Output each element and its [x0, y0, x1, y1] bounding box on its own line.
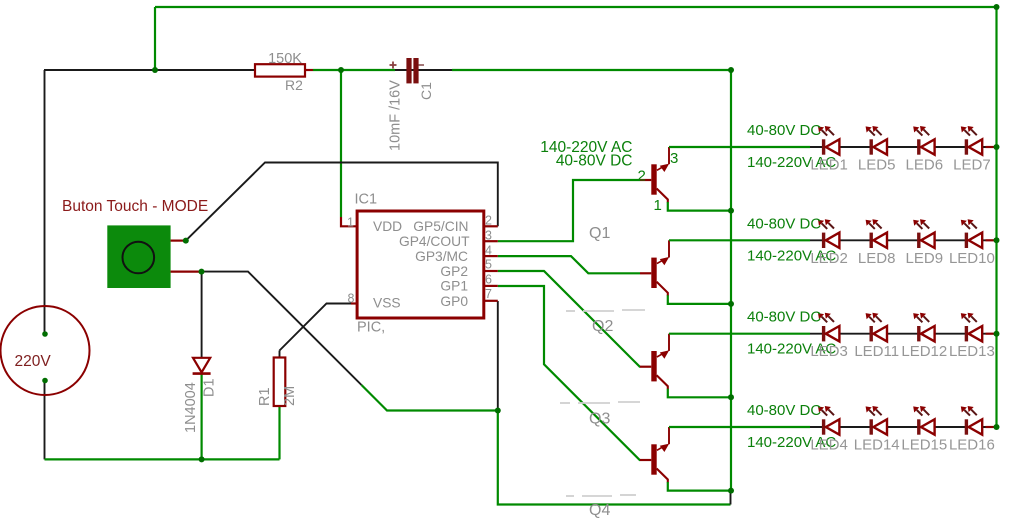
svg-text:LED9: LED9	[906, 250, 944, 267]
svg-text:220V: 220V	[15, 353, 52, 370]
svg-text:6: 6	[485, 273, 492, 287]
svg-text:LED16: LED16	[949, 437, 995, 454]
svg-text:40-80V DC: 40-80V DC	[556, 153, 633, 170]
svg-text:LED10: LED10	[949, 250, 995, 267]
svg-text:VSS: VSS	[373, 296, 401, 311]
svg-text:Q3: Q3	[589, 411, 610, 428]
svg-text:8: 8	[348, 292, 355, 306]
svg-text:LED4: LED4	[810, 437, 848, 454]
svg-text:40-80V DC: 40-80V DC	[747, 215, 821, 232]
svg-text:VDD: VDD	[373, 219, 402, 234]
svg-text:40-80V DC: 40-80V DC	[747, 402, 821, 419]
svg-text:D1: D1	[202, 378, 218, 397]
svg-text:LED11: LED11	[854, 343, 899, 360]
svg-text:1: 1	[347, 216, 354, 230]
svg-text:3: 3	[670, 150, 678, 167]
svg-text:2: 2	[638, 168, 646, 185]
svg-text:R1: R1	[257, 387, 273, 406]
svg-text:GP4/COUT: GP4/COUT	[399, 234, 470, 249]
svg-text:2M: 2M	[282, 386, 298, 406]
svg-text:LED1: LED1	[810, 157, 848, 174]
svg-text:LED5: LED5	[858, 157, 896, 174]
svg-text:2: 2	[485, 214, 492, 228]
svg-text:1N4004: 1N4004	[183, 382, 199, 433]
svg-text:GP0: GP0	[440, 294, 468, 309]
svg-text:LED2: LED2	[810, 250, 848, 267]
svg-text:LED7: LED7	[953, 157, 991, 174]
svg-text:150K: 150K	[268, 51, 302, 67]
svg-text:C1: C1	[418, 82, 434, 100]
svg-text:GP1: GP1	[440, 279, 468, 294]
svg-text:Q2: Q2	[592, 318, 613, 335]
svg-text:10mF /16V: 10mF /16V	[388, 80, 404, 151]
svg-text:40-80V DC: 40-80V DC	[747, 122, 821, 139]
svg-text:Buton Touch - MODE: Buton Touch - MODE	[62, 198, 208, 215]
svg-text:LED6: LED6	[906, 157, 944, 174]
svg-text:GP5/CIN: GP5/CIN	[413, 219, 468, 234]
svg-text:LED13: LED13	[949, 343, 995, 360]
svg-text:4: 4	[485, 244, 492, 258]
svg-text:7: 7	[485, 287, 492, 301]
svg-text:LED14: LED14	[854, 437, 900, 454]
svg-text:1: 1	[654, 197, 662, 214]
svg-text:GP3/MC: GP3/MC	[415, 249, 468, 264]
svg-text:IC1: IC1	[355, 192, 378, 208]
svg-text:LED12: LED12	[901, 343, 947, 360]
svg-text:R2: R2	[285, 77, 303, 93]
svg-text:LED8: LED8	[858, 250, 896, 267]
svg-text:PIC,: PIC,	[357, 320, 385, 336]
svg-text:40-80V DC: 40-80V DC	[747, 309, 821, 326]
svg-text:Q4: Q4	[589, 502, 610, 519]
svg-text:5: 5	[485, 258, 492, 272]
svg-text:LED3: LED3	[810, 343, 848, 360]
svg-text:3: 3	[485, 229, 492, 243]
svg-text:Q1: Q1	[589, 225, 610, 242]
svg-text:LED15: LED15	[901, 437, 947, 454]
svg-text:GP2: GP2	[440, 264, 468, 279]
